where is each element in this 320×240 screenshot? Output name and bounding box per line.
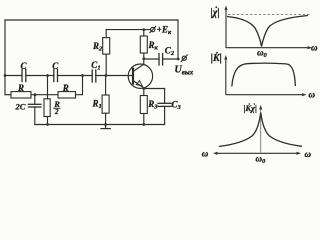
svg-text:C: C	[21, 61, 28, 71]
wire: main line C1 to transistor base	[96, 75, 133, 77]
graph3 y-axis arrowhead	[259, 105, 262, 110]
node: R/2 rail junction dot	[46, 123, 49, 126]
wire: bottom ground rail	[35, 124, 144, 126]
resistor R/2	[44, 99, 50, 117]
svg-text:2C: 2C	[15, 102, 26, 112]
node: R3 rail junction dot	[142, 123, 145, 126]
svg-text:C2: C2	[165, 46, 175, 58]
graph2 y-axis	[225, 58, 227, 95]
wire: Rk bottom lead to collector	[143, 53, 145, 64]
GRAPHS	[202, 6, 318, 166]
svg-text:|K|: |K|	[211, 53, 222, 64]
svg-text:|χ|: |χ|	[211, 8, 220, 19]
svg-text:+Eк: +Eк	[157, 25, 172, 37]
wire: R3 bottom lead to rail	[143, 114, 145, 125]
node: emitter junction dot	[142, 87, 145, 90]
svg-text:ω0: ω0	[257, 48, 268, 60]
terminal output	[181, 55, 187, 62]
wire: R/2 to bottom rail	[47, 117, 49, 125]
svg-text:C3: C3	[172, 100, 182, 112]
capacitor C2	[159, 54, 163, 66]
graph1 label chi	[211, 6, 220, 18]
wire: main line C to C1	[58, 75, 93, 77]
graph1 x-axis	[226, 47, 309, 49]
svg-text:ω: ω	[309, 90, 316, 100]
svg-text:ω: ω	[202, 149, 209, 159]
node: output junction dot	[177, 58, 180, 61]
wire: R1 bottom lead to rail	[105, 113, 107, 124]
node: T-bridge output junction dot	[81, 74, 84, 77]
wire: main line segment input to C	[5, 75, 22, 77]
label R/2 fraction	[53, 99, 60, 116]
wire: Rk top lead	[143, 30, 145, 36]
graph2 label K	[211, 52, 222, 64]
graph3 x-axis right arrowhead	[297, 152, 302, 155]
wire: main line C to C	[26, 75, 54, 77]
terminal +Ek	[150, 26, 156, 32]
wire: collector to C2	[144, 58, 159, 60]
transistor base bar	[132, 69, 134, 84]
transistor emitter lead	[133, 81, 144, 88]
node: base bias junction dot	[105, 74, 108, 77]
graph1 notch curve	[227, 16, 308, 47]
wire: left corner to R (lower arm)	[5, 94, 11, 96]
node M2: resistor midpoint dot	[34, 93, 37, 96]
wire: R to R lower arm	[31, 94, 58, 96]
node: input node junction dot	[4, 74, 7, 77]
graph2 x-axis arrowhead	[302, 93, 307, 96]
svg-text:ω: ω	[305, 149, 312, 159]
wire: supply rail	[106, 29, 150, 31]
graph1 y-axis	[225, 8, 227, 48]
wire: emitter to C3 branch	[144, 88, 165, 90]
graph3 center vertical axis	[260, 108, 262, 153]
graph1 dashed asymptote	[228, 14, 310, 16]
svg-text:R3: R3	[147, 99, 158, 111]
wire: R2 bottom lead to base node	[105, 54, 107, 75]
wire: M2 vertical to 2C	[34, 95, 36, 105]
graph2 y-axis arrowhead	[224, 55, 227, 60]
graph1 y-axis arrowhead	[224, 6, 227, 11]
svg-text:C: C	[52, 61, 59, 71]
graph2 x-axis	[226, 94, 304, 96]
graph3 x-axis	[216, 152, 299, 154]
wire: R2 top lead	[105, 30, 107, 38]
ground symbol	[101, 125, 110, 129]
wire: C3 top lead	[164, 89, 166, 104]
wire: 2C to bottom rail corner	[34, 107, 36, 125]
wire: M1 vertical to R/2	[47, 76, 49, 99]
wire: emitter to R3	[143, 89, 145, 96]
svg-text:R2: R2	[92, 41, 103, 53]
wire: C3 bottom lead to rail	[144, 106, 165, 124]
graph1 x-axis arrowhead	[308, 46, 313, 49]
resistor R1	[102, 95, 109, 113]
wire: C2 to output node	[163, 58, 179, 60]
svg-text:R1: R1	[92, 99, 102, 111]
transistor emitter arrowhead	[136, 81, 142, 86]
graph3 label K chi	[244, 103, 257, 113]
capacitor 2C	[28, 104, 41, 107]
wire: top feedback wire	[5, 19, 178, 21]
wire: base node to R1	[105, 76, 107, 96]
resistor R (lower-right)	[58, 92, 76, 98]
svg-text:R: R	[62, 83, 69, 93]
capacitor C (second)	[54, 70, 58, 82]
wire: right feedback vertical	[177, 20, 179, 59]
node: Rk supply junction dot	[142, 28, 145, 31]
svg-text:ω0: ω0	[256, 154, 267, 166]
svg-text:Uвых: Uвых	[175, 65, 194, 77]
resistor R2	[103, 38, 110, 55]
svg-text:2: 2	[54, 108, 59, 116]
graph3 resonance curve	[219, 113, 302, 147]
resistor Rk	[140, 36, 147, 53]
capacitor C (first)	[22, 70, 26, 82]
node: R1 rail junction dot	[104, 123, 107, 126]
transistor collector lead	[133, 64, 144, 71]
wire: left input vertical	[4, 20, 6, 95]
svg-text:ω: ω	[311, 43, 318, 53]
svg-text:R: R	[17, 83, 24, 93]
capacitor C1	[92, 70, 96, 82]
resistor R (lower-left)	[11, 92, 31, 98]
wire: lower arm to T output corner	[76, 76, 83, 95]
graph3 x-axis left arrowhead	[213, 152, 218, 155]
node: collector C2 junction dot	[142, 57, 145, 60]
label R/2 fraction bar	[54, 107, 61, 109]
svg-text:Rк: Rк	[148, 40, 159, 52]
graph2 bandpass curve	[232, 63, 296, 86]
svg-text:C1: C1	[91, 60, 100, 72]
transistor VT circle	[128, 64, 152, 88]
resistor R3	[140, 96, 147, 114]
node M1: cap midpoint dot	[46, 74, 49, 77]
capacitor C3	[158, 103, 171, 106]
